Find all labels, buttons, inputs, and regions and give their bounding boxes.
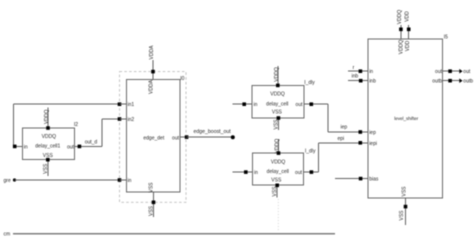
pin square upper delay VSS bbox=[277, 116, 281, 120]
svg-text:in: in bbox=[254, 102, 258, 108]
level shifter I5 body bbox=[368, 39, 443, 198]
pin square edge_det VSS bbox=[152, 201, 156, 205]
terminal arrow out bbox=[459, 69, 462, 74]
pin square lower delay VSS bbox=[275, 184, 279, 188]
level shifter VDDQ top stub bbox=[400, 25, 402, 39]
edge_det pin name VSS rotated inside bbox=[149, 182, 155, 193]
svg-text:out: out bbox=[435, 69, 443, 75]
svg-text:in1: in1 bbox=[128, 102, 135, 108]
pin name VDD rotated inside bbox=[405, 40, 411, 51]
wire lower delay in stub bbox=[233, 171, 253, 173]
svg-text:VDDQ: VDDQ bbox=[42, 134, 57, 140]
lower delay pin name in bbox=[254, 170, 258, 176]
wire gre to in bbox=[15, 179, 120, 181]
svg-text:VSS: VSS bbox=[43, 153, 54, 159]
delay_cell1 VSS bottom stub bbox=[47, 160, 49, 176]
edge_det I0 outer boundary dashed bbox=[120, 72, 187, 203]
pin square edge_det in2 bbox=[118, 117, 122, 121]
pin name iep bbox=[369, 130, 376, 136]
net label out_d bbox=[85, 140, 98, 146]
svg-text:gre: gre bbox=[4, 178, 11, 184]
edge_det pin name VDDA rotated inside bbox=[149, 79, 155, 94]
svg-text:VDD: VDD bbox=[405, 40, 411, 51]
wire inb stub bbox=[348, 80, 368, 82]
net label VSS rotated upper bbox=[273, 119, 279, 130]
svg-text:VSS: VSS bbox=[149, 182, 155, 193]
svg-text:delay_cell: delay_cell bbox=[267, 169, 289, 175]
pin square level shifter VSS bbox=[404, 205, 408, 209]
pin square lower delay VDDQ bbox=[277, 151, 281, 155]
net label VDD rotated top bbox=[405, 11, 411, 22]
terminal label outb bbox=[463, 78, 473, 84]
pin square lower delay out bbox=[310, 170, 314, 174]
wire epi horizontal bbox=[318, 142, 368, 144]
svg-text:VSS: VSS bbox=[399, 210, 405, 221]
svg-text:out: out bbox=[296, 102, 304, 108]
pin square upper delay in bbox=[242, 102, 246, 106]
svg-text:out_d: out_d bbox=[85, 140, 98, 146]
wire feedback top horizontal to in1 bbox=[14, 103, 120, 105]
pin square level shifter iepi bbox=[359, 141, 363, 145]
wire lower delay out bbox=[304, 171, 319, 173]
lower delay VSS bottom stub bbox=[276, 185, 278, 198]
delay_cell1 text VDDQ bbox=[42, 134, 57, 140]
wire iep horizontal bbox=[328, 131, 368, 133]
svg-text:VDDQ: VDDQ bbox=[397, 10, 403, 25]
lower delay text name bbox=[267, 169, 289, 175]
net label VSS rotated lower bbox=[272, 186, 278, 197]
svg-text:VDDQ: VDDQ bbox=[271, 159, 286, 165]
pin square lower delay in bbox=[244, 170, 248, 174]
pin square level shifter outb bbox=[448, 79, 452, 83]
delay cell I_delay upper body bbox=[252, 85, 304, 118]
svg-text:VSS: VSS bbox=[272, 186, 278, 197]
svg-text:in2: in2 bbox=[128, 117, 135, 123]
upper delay text VDDQ bbox=[270, 92, 285, 98]
pin name out bbox=[172, 135, 180, 141]
svg-text:out: out bbox=[172, 135, 180, 141]
instance label I_delay lower bbox=[305, 149, 316, 155]
svg-text:VDD: VDD bbox=[405, 11, 411, 22]
wire in stub bbox=[348, 70, 368, 72]
lower delay text VSS bbox=[271, 177, 282, 183]
input net gre label bbox=[4, 178, 11, 184]
pin square upper delay out bbox=[310, 102, 314, 106]
svg-text:level_shifter: level_shifter bbox=[394, 116, 419, 121]
net label in bbox=[353, 65, 355, 71]
upper delay text name bbox=[266, 102, 288, 108]
pin name outb bbox=[432, 79, 442, 85]
svg-text:VDDA: VDDA bbox=[149, 79, 155, 94]
pin square delay_cell1 out bbox=[78, 145, 82, 149]
svg-text:in: in bbox=[24, 144, 28, 150]
svg-text:outb: outb bbox=[463, 78, 473, 84]
upper delay text VSS bbox=[272, 110, 283, 116]
svg-text:I0: I0 bbox=[180, 76, 184, 82]
svg-text:delay_cell: delay_cell bbox=[266, 102, 288, 108]
svg-text:VDDQ: VDDQ bbox=[274, 67, 280, 82]
edge_det text name bbox=[143, 135, 164, 141]
stub out bbox=[180, 136, 187, 138]
terminal label out bbox=[463, 69, 471, 75]
svg-text:VDDQ: VDDQ bbox=[44, 109, 50, 124]
net label VDDQ rotated top bbox=[397, 10, 403, 25]
delay_cell1 pin name in bbox=[24, 144, 28, 150]
delay_cell1 text VSS bbox=[43, 153, 54, 159]
pin square level shifter VDD bbox=[407, 28, 411, 32]
level shifter VDD top stub bbox=[408, 25, 410, 39]
wire epi vertical bbox=[317, 143, 319, 172]
sheet border bottom line bbox=[13, 233, 335, 235]
pin name in bbox=[128, 178, 132, 184]
wire out_d to in2 bbox=[102, 118, 120, 120]
wire out_d horizontal bbox=[75, 145, 102, 147]
level shifter text name bbox=[394, 116, 419, 121]
svg-text:iep: iep bbox=[369, 130, 376, 136]
pin square level shifter VDDQ bbox=[399, 28, 403, 32]
instance label I2 bbox=[74, 122, 78, 128]
svg-text:iepi: iepi bbox=[369, 141, 377, 147]
delay cell I2 body bbox=[22, 128, 74, 160]
net label inb bbox=[352, 74, 359, 80]
svg-text:I_dly: I_dly bbox=[305, 149, 316, 155]
pin square upper delay VDDQ bbox=[276, 84, 280, 88]
wire feedback vertical left bbox=[13, 104, 15, 146]
svg-text:r: r bbox=[353, 65, 355, 71]
lower delay text VDDQ bbox=[271, 159, 286, 165]
sheet label cm bbox=[4, 232, 11, 238]
net label VSS rotated below bbox=[149, 205, 155, 216]
net label VDDQ rotated bbox=[44, 109, 50, 124]
svg-text:inb: inb bbox=[352, 74, 359, 80]
pin square edge_det in1 bbox=[118, 102, 122, 106]
pin square level shifter iep bbox=[359, 130, 363, 134]
pin name out bbox=[435, 69, 443, 75]
pin name inb bbox=[369, 79, 376, 85]
wire upper delay in stub bbox=[232, 103, 252, 105]
fold mark dotted vertical bbox=[277, 199, 279, 232]
net label iep bbox=[341, 125, 348, 131]
wire out_d vertical bbox=[101, 119, 103, 146]
pin square delay_cell1 VDDQ bbox=[46, 126, 50, 130]
svg-text:iep: iep bbox=[341, 125, 348, 131]
junction dot gre bbox=[13, 178, 16, 181]
pin name VSS rotated inside bbox=[401, 186, 407, 197]
upper delay pin name in bbox=[254, 102, 258, 108]
lower delay VDDQ top stub bbox=[278, 139, 280, 153]
stub in2 bbox=[120, 118, 127, 120]
edge_det VDDA top stub bbox=[152, 60, 154, 80]
svg-text:outb: outb bbox=[432, 79, 442, 85]
svg-text:VSS: VSS bbox=[43, 163, 49, 174]
wire to delay_cell1 in pin bbox=[14, 145, 23, 147]
net label VSS rotated bbox=[43, 163, 49, 174]
pin square level shifter bias bbox=[359, 177, 363, 181]
wire edge_boost_out bbox=[187, 136, 233, 138]
svg-text:in: in bbox=[254, 170, 258, 176]
svg-text:edge_boost_out: edge_boost_out bbox=[194, 129, 232, 135]
instance label I5 bbox=[444, 35, 448, 41]
svg-text:cm: cm bbox=[4, 232, 11, 238]
wire bias stub bbox=[335, 178, 368, 180]
pin square edge_det out bbox=[185, 135, 189, 139]
svg-text:epi: epi bbox=[338, 136, 345, 142]
svg-text:I_dly: I_dly bbox=[304, 80, 315, 86]
delay_cell1 VDDQ top stub bbox=[47, 108, 49, 129]
net label edge_boost_out bbox=[194, 129, 232, 135]
pin square delay_cell1 in bbox=[13, 145, 17, 149]
svg-text:VSS: VSS bbox=[149, 205, 155, 216]
svg-text:inb: inb bbox=[369, 79, 376, 85]
svg-text:VSS: VSS bbox=[272, 110, 283, 116]
svg-text:VSS: VSS bbox=[273, 119, 279, 130]
wire upper delay out bbox=[304, 103, 328, 105]
pin name VDDQ rotated inside bbox=[399, 40, 405, 55]
svg-text:VDDQ: VDDQ bbox=[270, 92, 285, 98]
svg-text:I5: I5 bbox=[444, 35, 448, 41]
wire outb terminal bbox=[443, 80, 460, 82]
pin square level shifter in bbox=[359, 69, 363, 73]
delay_cell1 pin name out bbox=[67, 144, 75, 150]
stub in bbox=[120, 179, 127, 181]
upper delay VSS bottom stub bbox=[277, 118, 279, 130]
svg-text:VDDQ: VDDQ bbox=[399, 40, 405, 55]
pin square level shifter out bbox=[448, 69, 452, 73]
svg-text:out: out bbox=[463, 69, 471, 75]
net label VDDA rotated bbox=[149, 45, 155, 60]
svg-text:VDDA: VDDA bbox=[149, 45, 155, 60]
level shifter VSS bottom stub bbox=[405, 198, 407, 225]
net label epi bbox=[338, 136, 345, 142]
edge_det I0 body bbox=[127, 80, 180, 193]
pin name bias bbox=[369, 177, 379, 183]
instance label I_delay upper bbox=[304, 80, 315, 86]
pin name iepi bbox=[369, 141, 377, 147]
svg-text:VDDQ: VDDQ bbox=[275, 139, 281, 154]
wire out terminal bbox=[443, 70, 460, 72]
edge_det VSS bottom stub bbox=[153, 192, 155, 217]
dangling dot edge_boost_out bbox=[231, 135, 235, 139]
terminal arrow outb bbox=[459, 78, 462, 83]
upper delay pin name out bbox=[296, 102, 304, 108]
net label VSS rotated below bbox=[399, 210, 405, 221]
svg-text:out: out bbox=[295, 170, 303, 176]
delay_cell1 text name bbox=[35, 143, 60, 149]
pin name in bbox=[369, 69, 373, 75]
svg-text:edge_det: edge_det bbox=[143, 135, 164, 141]
net label VDDQ rotated upper bbox=[274, 67, 280, 82]
svg-text:I2: I2 bbox=[74, 122, 78, 128]
svg-text:VSS: VSS bbox=[271, 177, 282, 183]
svg-text:delay_cell1: delay_cell1 bbox=[35, 143, 60, 149]
svg-text:bias: bias bbox=[369, 177, 379, 183]
lower delay pin name out bbox=[295, 170, 303, 176]
svg-text:in: in bbox=[369, 69, 373, 75]
pin name in2 bbox=[128, 117, 135, 123]
pin name in1 bbox=[128, 102, 135, 108]
upper delay VDDQ top stub bbox=[277, 66, 279, 85]
wire iep vertical bbox=[327, 104, 329, 132]
pin square level shifter inb bbox=[359, 79, 363, 83]
delay cell I_delay lower body bbox=[252, 153, 303, 185]
pin square delay_cell1 VSS bbox=[46, 158, 50, 162]
svg-text:in: in bbox=[128, 178, 132, 184]
svg-text:VSS: VSS bbox=[401, 186, 407, 197]
instance label I0 bbox=[180, 76, 184, 82]
net label VDDQ rotated lower bbox=[275, 139, 281, 154]
pin square edge_det in bbox=[118, 178, 122, 182]
svg-text:out: out bbox=[67, 144, 75, 150]
pin square edge_det VDDA bbox=[151, 70, 155, 74]
stub in1 bbox=[120, 103, 127, 105]
